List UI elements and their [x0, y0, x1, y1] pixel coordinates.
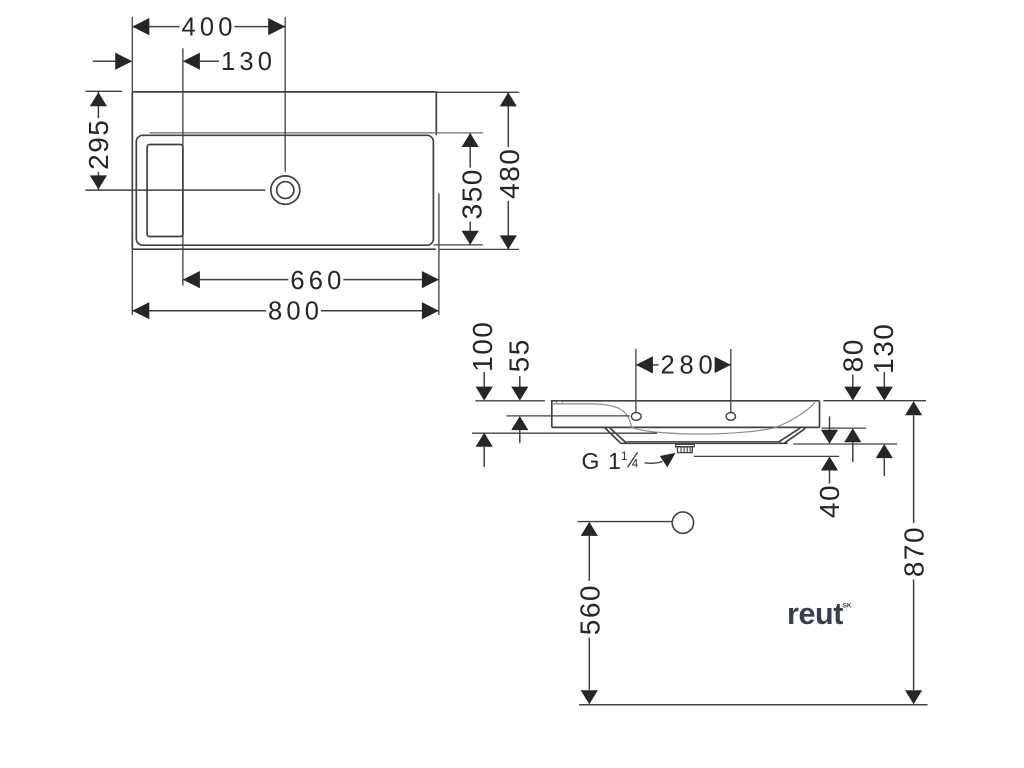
- dimension 350 label: [457, 168, 488, 222]
- dimension 55 upper tail and arrow: [519, 376, 521, 387]
- dimension 130 left outside arrow and tail: [93, 60, 117, 62]
- drain fitting G 1 1/4 outline: [676, 444, 695, 447]
- svg-text:100: 100: [467, 321, 498, 372]
- washbasin plan view left shelf rounded rectangle: [147, 145, 183, 237]
- washbasin plan view outer outline left edge: [131, 92, 133, 249]
- svg-text:55: 55: [504, 338, 535, 372]
- 350 bottom extension line: [434, 244, 483, 246]
- washbasin plan view inner basin rim rounded rectangle: [136, 135, 433, 245]
- wall outlet circle: [672, 512, 693, 533]
- svg-text:G: G: [582, 448, 600, 474]
- dimension 800 left arrow: [132, 302, 149, 319]
- dimension 55 lower arrow and tail: [511, 416, 528, 430]
- dimension 480 line: [507, 92, 509, 249]
- dimension 560 top line to wall circle: [578, 521, 672, 523]
- side view bowl underside bottom inner line: [626, 441, 781, 443]
- 480 bottom extension line: [439, 248, 519, 250]
- dimension 660 label: [288, 269, 343, 290]
- right extension line x=439 from basin to 800 dim: [438, 193, 440, 315]
- dimension 560 lower tail: [588, 638, 590, 691]
- svg-text:40: 40: [814, 484, 845, 518]
- dimension 870 label: [898, 526, 929, 577]
- dimension 295 label: [83, 118, 114, 172]
- side view bowl underside left slant outer: [605, 428, 620, 443]
- dimension 560 bottom arrow: [581, 690, 598, 704]
- svg-text:660: 660: [290, 267, 345, 295]
- dimension 560 label: [575, 584, 606, 635]
- svg-text:295: 295: [83, 119, 114, 170]
- dimension 480 top arrow: [500, 92, 517, 106]
- dimension 130 side upper tail and arrow: [883, 372, 885, 387]
- dimension 350 line: [469, 133, 471, 245]
- svg-text:870: 870: [898, 526, 929, 577]
- dimension 280 right arrow: [714, 356, 731, 373]
- side reference line y=456.4 below drain: [694, 455, 839, 457]
- svg-text:560: 560: [575, 584, 606, 635]
- dimension 870 upper tail: [913, 415, 915, 523]
- left extension line above basin top-left corner: [131, 17, 133, 92]
- dimension 870 lower tail: [913, 580, 915, 691]
- horizontal centerline through drain: [85, 189, 265, 191]
- dimension 800 right arrow: [422, 302, 439, 319]
- dimension 40 label: [814, 484, 845, 518]
- dimension 280 label: [659, 354, 715, 375]
- dimension 400 left arrow: [132, 18, 149, 35]
- dimension 80 label: [838, 338, 869, 372]
- svg-text:4: 4: [632, 459, 639, 471]
- dimension 280 left extension line: [635, 349, 637, 413]
- side reference line y=400.8 left of basin: [475, 400, 545, 402]
- dimension 870 top arrow: [905, 401, 922, 415]
- extension line through shelf right edge x=183: [182, 48, 184, 285]
- dimension 400 right arrow: [268, 18, 285, 35]
- svg-text:280: 280: [661, 352, 718, 380]
- dimension 480 bottom arrow: [500, 235, 517, 249]
- dimension 295 line: [97, 92, 99, 190]
- dimension 660 left arrow: [183, 271, 200, 288]
- svg-text:130: 130: [868, 323, 899, 374]
- dimension 40 upper tail and arrow: [829, 416, 831, 430]
- dimension 400 label: [180, 16, 235, 37]
- svg-text:350: 350: [457, 168, 488, 219]
- dimension 100 label: [467, 321, 498, 372]
- G 1 1/4 leader arrow: [660, 453, 676, 467]
- 295 dim top reference tick: [85, 90, 122, 92]
- side view slab bottom edge: [552, 426, 820, 428]
- side reference line y=415.9 hole centerline: [506, 415, 629, 417]
- left extension line from basin bottom to 800 dim: [131, 249, 133, 315]
- dimension 400 line: [132, 26, 285, 28]
- floor line: [579, 704, 928, 706]
- side view small corner ellipse detail: [556, 401, 562, 404]
- dimension 40 lower arrow and tail: [821, 457, 838, 471]
- dimension 280 line: [636, 364, 731, 366]
- dimension 130 side lower arrow and tail: [876, 444, 893, 458]
- side reference line y=428 right of basin: [822, 427, 867, 429]
- side view bowl bottom interior curve: [632, 402, 816, 434]
- dimension 280 right extension line: [730, 349, 732, 413]
- dimension 560 upper tail: [588, 536, 590, 581]
- dimension 130 side label: [868, 323, 899, 374]
- vertical centerline from 400 dim down to drain: [284, 17, 286, 172]
- dimension 660 right arrow: [422, 271, 439, 288]
- svg-text:reut: reut: [787, 597, 843, 631]
- washbasin plan view outer outline top edge: [132, 91, 436, 93]
- dimension 100 upper tail and arrow: [483, 372, 485, 387]
- dimension 800 line: [132, 310, 439, 312]
- side view faucet hole right ellipse: [726, 413, 735, 421]
- washbasin plan view deck edge line: [150, 132, 484, 134]
- dimension 55 label: [504, 338, 535, 372]
- side view bowl underside right slant inner: [785, 428, 806, 443]
- side reference line y=432.8 bowl depth: [472, 432, 657, 434]
- svg-text:80: 80: [838, 338, 869, 372]
- side view slab top edge: [551, 400, 820, 402]
- dimension 800 label: [266, 300, 321, 321]
- side reference line y=444 right of basin: [793, 443, 897, 445]
- side view deck inner line and bowl front wall curve: [553, 404, 632, 427]
- dimension 350 bottom arrow: [462, 231, 479, 245]
- dimension 280 left arrow: [636, 356, 653, 373]
- svg-text:480: 480: [494, 148, 525, 199]
- dimension 100 lower arrow and tail: [476, 433, 493, 447]
- side view faucet hole left ellipse: [631, 413, 641, 421]
- dimension 295 top arrow: [90, 92, 107, 106]
- drain inner circle: [277, 182, 294, 199]
- drain fitting thread hatches: [680, 447, 682, 453]
- washbasin plan view outer outline right edge upper segment: [435, 92, 437, 135]
- svg-text:SK: SK: [843, 602, 852, 609]
- side view slab right edge: [819, 401, 821, 428]
- dimension 480 label: [494, 147, 525, 201]
- dimension 130 right outside arrow and tail: [183, 53, 200, 70]
- dimension 870 bottom arrow: [905, 690, 922, 704]
- svg-text:800: 800: [268, 297, 323, 325]
- side view bowl underside right slant outer: [779, 428, 800, 442]
- G 1 1/4 leader line: [645, 462, 663, 464]
- dimension 660 line: [183, 279, 439, 281]
- washbasin plan view outer outline bottom edge: [132, 248, 436, 250]
- dimension 350 top arrow: [462, 133, 479, 147]
- 480 top extension line: [436, 91, 519, 93]
- svg-text:1: 1: [621, 451, 627, 463]
- dimension 295 bottom arrow: [90, 175, 107, 189]
- dimension 560 top arrow: [581, 522, 598, 536]
- drain outer circle: [271, 176, 300, 204]
- side view bowl underside bottom outer line: [620, 442, 787, 444]
- side view slab left edge: [551, 401, 553, 428]
- side reference line top right y=400.7: [823, 400, 926, 402]
- dimension 80 upper tail and arrow: [852, 375, 854, 388]
- side view bowl underside left slant inner: [610, 428, 626, 443]
- svg-text:130: 130: [221, 48, 276, 76]
- svg-text:400: 400: [182, 13, 237, 41]
- svg-text:1: 1: [608, 448, 621, 474]
- dimension 80 lower arrow and tail: [844, 428, 861, 442]
